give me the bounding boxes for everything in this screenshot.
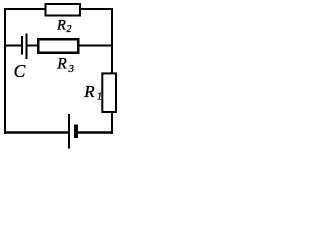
wire: middle row segment from capacitor to R3 <box>27 45 39 47</box>
svg-text:1: 1 <box>97 91 102 102</box>
wire: left vertical side of outer loop <box>4 8 6 134</box>
wire: top-right horizontal from R2 to top-right corner <box>80 8 113 10</box>
capacitor C right plate <box>26 34 28 60</box>
wire: middle row left segment from left side to capacitor C <box>4 45 21 47</box>
svg-text:2: 2 <box>67 24 72 35</box>
wire: bottom left horizontal from battery to bottom-left corner <box>4 131 68 134</box>
svg-text:C: C <box>14 61 26 81</box>
resistor R2 <box>46 4 81 16</box>
wire: top-left horizontal from corner to R2 <box>4 8 46 10</box>
battery positive plate (long thin) <box>68 114 70 149</box>
resistor R3 <box>38 39 78 53</box>
wire: right vertical from top corner down to R1 <box>111 8 113 74</box>
capacitor C left plate <box>21 36 23 55</box>
wire: right vertical from R1 down to bottom corner <box>111 112 113 134</box>
battery negative plate (short thick) <box>74 125 78 139</box>
wire: middle row right segment from R3 to right side <box>79 45 114 47</box>
svg-text:R: R <box>83 82 95 101</box>
svg-text:R: R <box>56 18 66 34</box>
svg-text:R: R <box>56 55 67 72</box>
svg-text:3: 3 <box>68 64 74 75</box>
wire: bottom right horizontal from corner to battery <box>78 131 113 134</box>
resistor R1 <box>102 73 116 112</box>
